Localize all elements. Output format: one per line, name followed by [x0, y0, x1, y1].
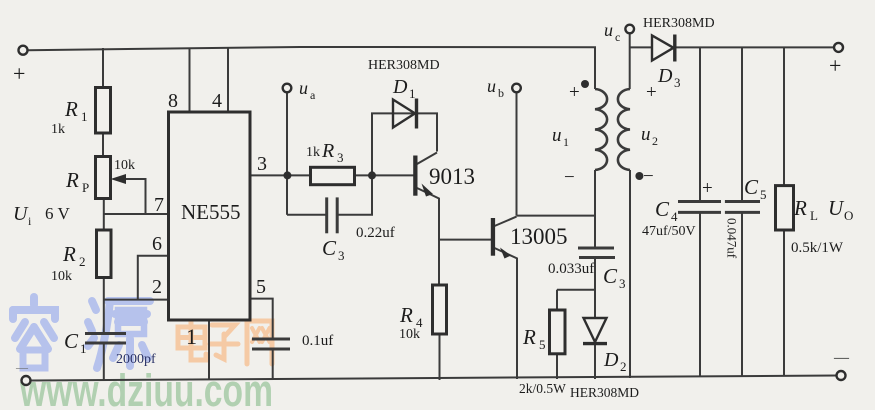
svg-text:u: u [604, 20, 613, 40]
svg-text:1: 1 [563, 135, 569, 149]
svg-text:HER308MD: HER308MD [643, 16, 715, 31]
svg-text:2: 2 [79, 254, 86, 269]
svg-text:2: 2 [652, 134, 658, 148]
svg-text:0.1uf: 0.1uf [302, 333, 333, 349]
svg-text:1k: 1k [306, 145, 320, 160]
svg-text:1: 1 [186, 324, 197, 349]
svg-text:D: D [392, 76, 408, 98]
svg-text:R: R [62, 242, 76, 266]
svg-text:R: R [522, 325, 536, 349]
svg-text:9013: 9013 [429, 164, 475, 189]
svg-text:5: 5 [256, 276, 266, 298]
svg-text:0.047uf: 0.047uf [725, 218, 740, 259]
svg-text:www.dziuu.com: www.dziuu.com [19, 365, 273, 410]
svg-text:+: + [702, 178, 713, 199]
svg-text:HER308MD: HER308MD [570, 385, 639, 400]
svg-text:4: 4 [212, 90, 222, 112]
svg-text:5: 5 [539, 337, 546, 352]
svg-text:b: b [498, 86, 504, 100]
svg-text:u: u [487, 76, 496, 96]
svg-text:1: 1 [409, 86, 416, 101]
svg-text:—: — [15, 360, 29, 374]
svg-text:2: 2 [152, 276, 162, 298]
svg-text:C: C [744, 175, 759, 199]
svg-text:NE555: NE555 [181, 200, 241, 224]
svg-text:10k: 10k [51, 269, 72, 284]
svg-text:3: 3 [619, 276, 626, 291]
svg-text:13005: 13005 [510, 224, 568, 249]
svg-text:C: C [655, 197, 670, 221]
svg-text:C: C [64, 329, 79, 353]
svg-text:R: R [64, 97, 78, 121]
svg-text:6 V: 6 V [45, 204, 70, 223]
svg-text:u: u [641, 124, 651, 145]
svg-text:4: 4 [671, 209, 678, 224]
svg-text:—: — [833, 350, 850, 366]
svg-text:C: C [322, 236, 337, 260]
svg-text:U: U [828, 196, 845, 220]
svg-text:R: R [321, 140, 334, 162]
svg-text:+: + [646, 82, 657, 103]
svg-text:0.22uf: 0.22uf [356, 225, 395, 241]
svg-text:2k/0.5W: 2k/0.5W [519, 381, 566, 396]
svg-text:8: 8 [168, 90, 178, 112]
svg-text:1: 1 [80, 341, 87, 356]
svg-text:3: 3 [337, 150, 344, 165]
svg-text:−: − [564, 167, 575, 188]
svg-text:3: 3 [257, 153, 267, 175]
svg-text:U: U [13, 203, 29, 225]
svg-text:R: R [399, 303, 413, 327]
svg-text:u: u [552, 125, 562, 146]
svg-text:L: L [810, 208, 818, 223]
svg-text:D: D [657, 65, 673, 87]
svg-text:7: 7 [154, 194, 164, 216]
svg-text:R: R [65, 168, 79, 192]
svg-text:2000pf: 2000pf [116, 352, 156, 367]
svg-text:−: − [643, 166, 654, 187]
svg-text:R: R [793, 196, 807, 220]
svg-text:P: P [82, 180, 89, 195]
svg-text:2: 2 [620, 359, 627, 374]
svg-text:5: 5 [760, 187, 767, 202]
svg-text:3: 3 [674, 75, 681, 90]
svg-text:6: 6 [152, 233, 162, 255]
svg-text:1k: 1k [51, 122, 65, 137]
svg-text:O: O [844, 208, 853, 223]
svg-text:+: + [569, 82, 580, 103]
svg-text:10k: 10k [114, 158, 135, 173]
svg-text:+: + [829, 53, 841, 78]
svg-text:a: a [310, 88, 316, 102]
svg-text:c: c [615, 30, 620, 44]
svg-text:D: D [603, 349, 619, 371]
svg-text:47uf/50V: 47uf/50V [642, 224, 696, 239]
svg-text:0.033uf: 0.033uf [548, 261, 594, 277]
svg-text:10k: 10k [399, 327, 420, 342]
svg-text:+: + [13, 61, 25, 86]
svg-text:0.5k/1W: 0.5k/1W [791, 240, 844, 256]
svg-text:1: 1 [81, 109, 88, 124]
svg-text:3: 3 [338, 248, 345, 263]
svg-text:HER308MD: HER308MD [368, 58, 440, 73]
svg-text:C: C [603, 264, 618, 288]
svg-text:u: u [299, 78, 308, 98]
